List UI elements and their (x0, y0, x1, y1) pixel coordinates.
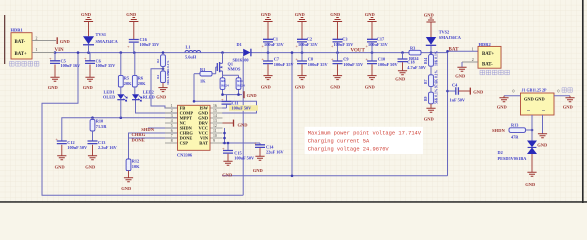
connector J1 (504, 88, 572, 134)
capacitor C1 (261, 37, 284, 53)
svg-text:+: + (49, 56, 52, 61)
wire MPPT line to pin3 (62, 118, 178, 141)
svg-text:13: 13 (213, 119, 217, 123)
LED LED1 OLED (103, 87, 127, 118)
svg-text:GND: GND (424, 117, 435, 122)
capacitor C10 (365, 53, 398, 67)
svg-text:GND: GND (537, 142, 548, 147)
svg-text:+: + (254, 140, 257, 145)
svg-text:22uF 16V: 22uF 16V (266, 149, 285, 154)
inductor L1 (185, 44, 201, 59)
svg-text:GND: GND (295, 84, 306, 89)
svg-text:BAT: BAT (199, 141, 208, 146)
wire DRV loop R1 to pin15 (194, 74, 257, 113)
svg-text:GND: GND (365, 12, 376, 17)
capacitor C4 (448, 82, 466, 102)
svg-text:1K: 1K (200, 79, 206, 84)
ground above TVS1 (81, 12, 93, 36)
junction dots other (91, 67, 533, 177)
svg-text:VIN: VIN (55, 48, 65, 53)
svg-text:+: + (55, 137, 58, 142)
svg-text:14: 14 (213, 114, 217, 118)
svg-text:12: 12 (213, 124, 217, 128)
svg-text:3: 3 (171, 114, 173, 118)
svg-text:GND: GND (222, 172, 233, 177)
wire BAT bottom line (222, 51, 448, 176)
resistor R12 (126, 159, 140, 171)
svg-text:BAT: BAT (449, 48, 460, 53)
ground below C15 (222, 154, 233, 178)
svg-text:GND: GND (156, 94, 167, 99)
resistor R1 (194, 67, 212, 84)
power port GND at C4 (458, 88, 484, 95)
capacitor C15 (222, 146, 255, 161)
svg-text:6: 6 (171, 129, 173, 133)
svg-text:100uF 35V: 100uF 35V (308, 62, 329, 67)
svg-text:GND: GND (253, 168, 264, 173)
svg-text:GND: GND (330, 84, 341, 89)
svg-text:C4: C4 (452, 82, 458, 87)
ground below C6 (83, 65, 95, 91)
ground below J1 pin (537, 134, 548, 148)
svg-text:97.6K 0.1%: 97.6K 0.1% (434, 70, 438, 88)
svg-text:+: + (261, 56, 264, 61)
ground above C16 (126, 12, 138, 40)
junction dots rail (54, 50, 449, 54)
power port GND at HDR1 pin2 (57, 37, 70, 44)
svg-text:R8: R8 (221, 79, 225, 83)
svg-text:+: + (222, 146, 225, 151)
capacitor C18 (398, 53, 427, 70)
sheet border right (582, 0, 584, 203)
svg-text:0: 0 (558, 90, 560, 94)
svg-text:GND: GND (424, 13, 435, 18)
wire R8 R11 sense bottom (223, 89, 243, 94)
ground below C13 (85, 145, 97, 170)
svg-text:D1: D1 (237, 42, 242, 47)
svg-text:RLED: RLED (143, 95, 155, 100)
TVS diode D2 PESD5V0S1BA (498, 130, 538, 161)
wire LED2 to pin2 (136, 100, 178, 113)
svg-text:GND: GND (85, 164, 96, 169)
svg-text:GND: GND (261, 12, 272, 17)
svg-text:GND: GND (60, 39, 71, 44)
svg-text:R14: R14 (424, 58, 428, 64)
svg-text:GND: GND (48, 85, 59, 90)
svg-text:SB16100: SB16100 (233, 57, 249, 62)
capacitor C16 (127, 37, 160, 52)
svg-text:10K: 10K (132, 164, 140, 169)
svg-text:1: 1 (472, 47, 474, 51)
svg-text:2: 2 (171, 109, 173, 113)
resistor R2 (156, 55, 170, 76)
ground below C10 (365, 64, 377, 89)
resistor R14 (424, 50, 438, 75)
svg-text:GND: GND (126, 12, 137, 17)
wire VIN rail (55, 51, 478, 52)
ground above C2 (295, 12, 307, 39)
svg-text:SMAJ36CA: SMAJ36CA (439, 35, 462, 40)
svg-text:GND: GND (525, 182, 536, 187)
svg-text:GND: GND (238, 122, 249, 127)
svg-text:100uF 35V: 100uF 35V (140, 42, 161, 47)
ground above C17 (365, 12, 377, 39)
svg-text:1: 1 (36, 48, 38, 52)
svg-text:+: + (221, 97, 224, 102)
svg-text:TVS2: TVS2 (439, 29, 450, 34)
svg-text:R1: R1 (200, 67, 205, 72)
capacitor C6 (84, 53, 116, 69)
resistor R6 (132, 53, 146, 87)
sheet border segment left (4, 15, 5, 64)
svg-text:2: 2 (472, 58, 474, 62)
svg-text:CSP: CSP (180, 141, 189, 146)
sheet border bottom (0, 201, 587, 203)
wire FB divider to pin1 (151, 69, 178, 108)
TVS diode TVS2 SMAJ36CA (426, 29, 462, 52)
svg-text:10K 0.1%: 10K 0.1% (166, 71, 170, 85)
svg-text:8: 8 (171, 139, 173, 143)
svg-text:+: + (365, 56, 368, 61)
svg-text:R7: R7 (424, 79, 428, 84)
ground at HDR2 pin2 (455, 62, 466, 79)
ground below R9 (424, 104, 436, 122)
svg-text:R4: R4 (156, 75, 160, 79)
svg-text:R3: R3 (410, 46, 415, 51)
svg-text:100uF 35V: 100uF 35V (96, 63, 117, 68)
ground below C14 (253, 148, 265, 173)
svg-text:R9: R9 (424, 96, 428, 101)
svg-text:2: 2 (36, 36, 38, 40)
svg-text:100uF 35V: 100uF 35V (274, 62, 295, 67)
svg-text:R024: R024 (237, 84, 245, 88)
ground left of J1 (497, 96, 509, 110)
resistor R9 (424, 88, 438, 104)
capacitor C14 (254, 140, 285, 154)
svg-text:C17: C17 (377, 37, 385, 42)
svg-text:HDR1: HDR1 (11, 28, 24, 33)
wire ISW pin16 to C11 (222, 95, 227, 108)
svg-text:GND GND: GND GND (524, 96, 545, 101)
ground below R12 (121, 171, 133, 191)
ground right of J1 (563, 96, 575, 110)
capacitor C12 (55, 137, 88, 150)
power port GND at R11 sense (244, 91, 257, 98)
resistor R3 R024 (409, 46, 421, 61)
svg-text:R2: R2 (156, 59, 160, 63)
svg-text:D2: D2 (498, 150, 503, 155)
svg-text:R024: R024 (409, 56, 419, 61)
svg-text:100uF 35V: 100uF 35V (343, 62, 364, 67)
TVS diode TVS1 SMAJ34CA (83, 32, 119, 53)
wire DONE pin7 (129, 137, 178, 139)
svg-text:GND: GND (395, 77, 406, 82)
wire VCC/VIN pins join (222, 128, 260, 151)
ground below C12 (55, 145, 67, 170)
svg-text:GND: GND (83, 85, 94, 90)
svg-text:5.6uH: 5.6uH (185, 54, 197, 59)
svg-text:J1 GB11.25 2P: J1 GB11.25 2P (522, 88, 548, 93)
svg-text:OLED: OLED (103, 95, 115, 100)
svg-text:+: + (84, 56, 87, 61)
capacitor C9 (331, 53, 364, 67)
wire SHDN stub pin5 (148, 127, 178, 129)
resistor R4 (156, 71, 170, 85)
svg-text:L1: L1 (186, 44, 191, 49)
connector HDR2 (462, 42, 501, 68)
svg-text:20K: 20K (138, 81, 146, 86)
svg-text:5: 5 (171, 124, 173, 128)
op-amp U1 CN3306 charger IC (165, 104, 223, 157)
capacitor C11 (221, 97, 258, 111)
svg-text:100uF 35V: 100uF 35V (334, 42, 355, 47)
resistor R11 R024 (236, 78, 245, 90)
svg-text:0: 0 (513, 90, 515, 94)
resistor R8 R024 (220, 78, 229, 90)
resistor R13 (509, 122, 532, 139)
svg-text:10K 0.1%: 10K 0.1% (434, 50, 438, 66)
connector HDR1 (11, 28, 57, 59)
svg-text:100uF 16V: 100uF 16V (61, 63, 82, 68)
ground below C18 (395, 62, 407, 81)
svg-text:100uF 35V: 100uF 35V (264, 42, 285, 47)
svg-text:100uF 50V: 100uF 50V (67, 145, 88, 150)
svg-text:GND: GND (473, 89, 484, 94)
svg-text:16: 16 (213, 104, 217, 108)
svg-text:Charging voltage 24.9676V: Charging voltage 24.9676V (308, 146, 390, 152)
ground below C9 (330, 64, 342, 89)
svg-text:GND: GND (81, 12, 92, 17)
capacitor C17 (365, 37, 388, 53)
diode D1 SB16100 (233, 42, 251, 62)
svg-text:100uF 50V: 100uF 50V (232, 106, 253, 111)
svg-text:R13: R13 (511, 122, 518, 127)
resistor R7 (424, 70, 438, 93)
svg-text:71.5R: 71.5R (96, 124, 108, 129)
svg-text:20K: 20K (124, 81, 132, 86)
svg-text:10: 10 (213, 134, 217, 138)
svg-text:TVS1: TVS1 (96, 32, 107, 37)
svg-text:2.2uF 16V: 2.2uF 16V (98, 145, 118, 150)
svg-text:+: + (331, 56, 334, 61)
svg-text:Maximum power point voltage 17: Maximum power point voltage 17.714V (308, 131, 422, 137)
svg-text:1nF 50V: 1nF 50V (450, 98, 466, 103)
svg-text:SHDN: SHDN (492, 128, 505, 133)
svg-text:100uF 35V: 100uF 35V (298, 42, 319, 47)
caption solar port (10, 62, 39, 67)
wire big loop (VIN to switch node bottom loop) (42, 53, 243, 195)
svg-text:100uF 50V: 100uF 50V (378, 62, 399, 67)
svg-text:Charging current 5A: Charging current 5A (308, 138, 370, 144)
svg-text:R11: R11 (237, 79, 243, 83)
svg-text:SMAJ34CA: SMAJ34CA (96, 39, 119, 44)
svg-text:GND: GND (295, 12, 306, 17)
svg-text:NMOS: NMOS (228, 66, 242, 71)
svg-text:+: + (295, 56, 298, 61)
ground below D2 (525, 154, 536, 187)
svg-text:DONE: DONE (132, 137, 145, 142)
svg-text:PESD5V0S1BA: PESD5V0S1BA (498, 156, 528, 161)
ground below C7 (261, 64, 273, 89)
svg-text:R024: R024 (221, 84, 229, 88)
svg-text:GND: GND (261, 84, 272, 89)
svg-text:1: 1 (171, 104, 173, 108)
resistor R10 (90, 118, 107, 141)
svg-text:C2: C2 (307, 37, 312, 42)
svg-text:56K 0.1%: 56K 0.1% (434, 88, 438, 104)
resistor R5 (118, 53, 132, 87)
svg-text:GND: GND (330, 12, 341, 17)
ground below C8 (295, 64, 307, 89)
svg-text:VOUT: VOUT (351, 48, 366, 53)
wire VOUT drop column (291, 53, 293, 176)
capacitor C8 (295, 53, 328, 67)
power port GND at IC pin13 (223, 120, 249, 128)
svg-text:BAT+: BAT+ (15, 52, 28, 57)
capacitor C2 (295, 37, 318, 53)
capacitor C13 (88, 140, 118, 150)
capacitor C3 (331, 37, 354, 53)
svg-text:GND: GND (247, 93, 258, 98)
capacitor C5 (49, 53, 81, 69)
ground below C5 (48, 65, 60, 91)
svg-text:GND: GND (365, 84, 376, 89)
LED LED2 RLED (132, 87, 155, 101)
svg-text:GND: GND (455, 74, 466, 79)
wire Q1 drain/source (223, 75, 239, 78)
ground above C3 (330, 12, 342, 39)
svg-text:GND: GND (563, 104, 574, 109)
ground below R4 (156, 83, 167, 100)
svg-text:BAT-: BAT- (482, 63, 493, 68)
svg-text:+: + (127, 44, 130, 49)
info annotation box (305, 127, 424, 154)
svg-text:GND: GND (497, 104, 508, 109)
svg-text:15: 15 (213, 109, 217, 113)
svg-text:7: 7 (171, 134, 173, 138)
svg-text:100uF 50V: 100uF 50V (234, 156, 255, 161)
ground above C1 (261, 12, 273, 39)
wire CHRG pin6 (129, 133, 178, 159)
svg-text:GND: GND (55, 164, 66, 169)
svg-text:CN3306: CN3306 (177, 153, 193, 158)
svg-text:4: 4 (171, 119, 173, 123)
transistor Q1 NMOS (213, 53, 242, 76)
svg-text:C3: C3 (342, 37, 347, 42)
svg-text:BAT-: BAT- (15, 40, 26, 45)
svg-text:4.7uF 50V: 4.7uF 50V (407, 65, 427, 70)
svg-text:GND: GND (121, 186, 132, 191)
caption battery port (480, 70, 509, 75)
capacitor C7 (261, 53, 294, 67)
svg-text:C1: C1 (273, 37, 278, 42)
ground above TVS2 (424, 13, 436, 38)
svg-text:100uF 35V: 100uF 35V (368, 42, 389, 47)
svg-text:11: 11 (213, 129, 217, 133)
svg-text:47R: 47R (511, 135, 519, 140)
svg-text:9: 9 (213, 139, 215, 143)
svg-text:BAT+: BAT+ (482, 52, 495, 57)
